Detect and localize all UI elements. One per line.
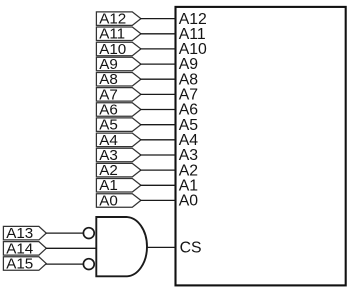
AND gate U2 body bbox=[96, 217, 147, 276]
signal tag A9 bbox=[96, 56, 140, 73]
signal tag A2 bbox=[96, 162, 140, 179]
signal tag A11 bbox=[96, 26, 140, 43]
signal tag A12 bbox=[96, 11, 140, 28]
wire A4 bbox=[140, 139, 176, 141]
signal tag A14 bbox=[3, 240, 46, 257]
svg-text:A0: A0 bbox=[179, 193, 199, 210]
signal tag A10 bbox=[96, 41, 140, 58]
signal tag A3 bbox=[96, 147, 140, 164]
wire A11 bbox=[140, 33, 176, 35]
signal tag A5 bbox=[96, 117, 140, 134]
wire A14 to gate bbox=[46, 247, 97, 249]
wire A9 bbox=[140, 63, 176, 65]
inverter bubble on A13 input bbox=[83, 228, 94, 239]
svg-text:A15: A15 bbox=[6, 256, 33, 273]
signal tag A0 bbox=[96, 192, 140, 209]
wire gate output to CS pin bbox=[147, 246, 176, 248]
svg-text:A0: A0 bbox=[99, 192, 118, 209]
signal tag A15 bbox=[3, 256, 46, 273]
signal tag A7 bbox=[96, 86, 140, 103]
svg-text:CS: CS bbox=[180, 240, 202, 257]
wire A1 bbox=[140, 184, 176, 186]
wire A12 bbox=[140, 18, 176, 20]
wire A10 bbox=[140, 48, 176, 50]
wire A2 bbox=[140, 169, 176, 171]
signal tag A13 bbox=[3, 225, 46, 242]
wire A7 bbox=[140, 93, 176, 95]
wire A5 bbox=[140, 124, 176, 126]
wire A6 bbox=[140, 109, 176, 111]
signal tag A1 bbox=[96, 177, 140, 194]
wire A15 to inverter bubble bbox=[46, 263, 83, 265]
inverter bubble on A15 input bbox=[83, 259, 94, 270]
signal tag A8 bbox=[96, 71, 140, 88]
wire A3 bbox=[140, 154, 176, 156]
wire A0 bbox=[140, 199, 176, 201]
signal tag A4 bbox=[96, 132, 140, 149]
signal tag A6 bbox=[96, 102, 140, 119]
memory chip U1 bbox=[176, 7, 346, 286]
wire A8 bbox=[140, 78, 176, 80]
wire A13 to inverter bubble bbox=[46, 232, 83, 234]
